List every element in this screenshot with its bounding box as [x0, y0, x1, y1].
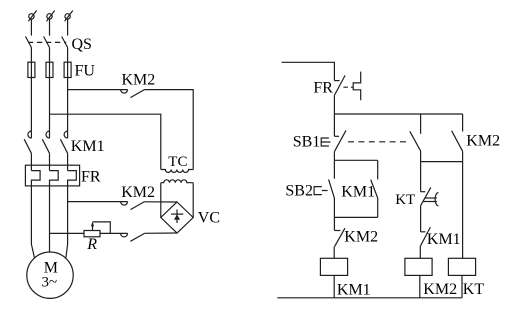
wire: phase 3 tap to KM2 contact (row A)	[68, 89, 128, 91]
wire: KM2 row D to rectifier bottom vertex	[145, 232, 178, 234]
coil KT	[448, 258, 475, 298]
supply terminal L1 (circle with slash)	[28, 11, 36, 22]
svg-text:TC: TC	[168, 154, 187, 170]
pushbutton SB1 blade	[334, 130, 346, 151]
wire: TC secondary left to rectifier left vertex	[160, 183, 162, 218]
wire: phase 2 FR to motor	[49, 186, 51, 252]
contact KT (NC time-delay)	[421, 162, 431, 206]
wire: phase 2 tap to TC primary left (row B)	[50, 114, 161, 169]
wire: TC secondary right to rectifier right vertex	[192, 183, 194, 218]
svg-text:KM1: KM1	[71, 138, 105, 155]
contactor KM1 main contact pole 3	[60, 131, 67, 153]
wire: parallel box bottom rail	[334, 216, 377, 218]
pushbutton SB2 actuator	[314, 187, 328, 195]
wire: phase 3 tap to KM2 braking contact (row C)	[68, 201, 128, 203]
wire: R bypass loop	[93, 222, 111, 234]
wire: phase 1 fuse to KM1 contact	[30, 78, 32, 139]
svg-text:VC: VC	[198, 209, 220, 226]
wire: R to KM2 contact (row D)	[100, 232, 128, 234]
FR heater element phase 3	[68, 171, 77, 186]
contact FR (NC thermal) fixed tick	[334, 80, 339, 82]
KT delay symbol	[423, 193, 438, 206]
FR thermal release symbol	[353, 72, 361, 101]
wire: bottom rail	[277, 297, 462, 299]
svg-text:3~: 3~	[42, 275, 58, 291]
contactor KM1 main contact pole 1	[24, 131, 31, 153]
mechanical link SB1 to KM2 contacts (dashed)	[348, 141, 408, 143]
transformer TC primary winding	[161, 170, 193, 173]
pushbutton SB2 (NO)	[329, 160, 335, 217]
QS mechanical link (dashed)	[28, 41, 66, 43]
svg-text:KT: KT	[463, 281, 485, 298]
wire: phase 3 FR to motor	[66, 186, 68, 258]
contact KM2 blade (row C)	[130, 202, 144, 210]
FR heater element phase 2	[50, 171, 59, 186]
wire: phase 2 tap to resistor R (row D)	[50, 232, 85, 234]
svg-text:QS: QS	[72, 36, 92, 53]
svg-text:KM1: KM1	[427, 231, 461, 248]
supply terminal L2	[47, 11, 55, 22]
contact KM2 aux 2 (NO)	[452, 114, 463, 258]
wire: phase 2 fuse to KM1 contact	[49, 78, 51, 139]
contact KM1 aux (NO, seal-in)	[371, 160, 378, 217]
wire: KM2 contact to TC primary right	[144, 90, 193, 170]
contact KM2 blade (row D)	[130, 233, 144, 241]
svg-text:SB2: SB2	[285, 183, 313, 200]
wire: SB1 to SB2 node	[333, 152, 335, 161]
contact KM2 aux 1 (NO)	[410, 114, 421, 162]
coil KM2	[405, 246, 432, 298]
rectifier VC diode symbol	[171, 210, 183, 224]
pushbutton SB1 actuator	[321, 138, 330, 146]
svg-text:KM2: KM2	[466, 132, 500, 149]
disconnect switch QS pole 3 blade	[62, 37, 68, 48]
wire: top rail to KM2 aux contacts	[334, 113, 462, 115]
svg-text:KM1: KM1	[341, 184, 375, 201]
pushbutton SB1 (NC) fixed tick	[334, 135, 339, 137]
FR heater element phase 1	[31, 171, 40, 186]
wire: phase 1 FR to motor	[31, 186, 34, 258]
fuse FU phase 2	[46, 62, 53, 77]
disconnect switch QS pole 2 blade	[44, 37, 50, 48]
contact KM2 fixed-end hook (row A)	[121, 90, 128, 94]
coil KM1	[320, 247, 347, 298]
contact KM2 blade (row A)	[130, 90, 144, 98]
wire: parallel box top rail	[334, 159, 377, 161]
supply terminal L3	[65, 11, 73, 22]
FR trip link (dashed)	[343, 86, 353, 88]
contact KM2 fixed-end hook (row D)	[121, 233, 128, 237]
fuse FU phase 1	[28, 62, 35, 77]
svg-text:R: R	[86, 236, 97, 253]
fuse FU phase 3	[64, 62, 71, 77]
wire: QS to fuses	[31, 48, 67, 63]
resistor R body	[84, 231, 100, 237]
contact KM1 (NC interlock right)	[421, 206, 431, 246]
svg-text:KM2: KM2	[423, 281, 457, 298]
contact KM2 fixed-end hook (row C)	[121, 202, 128, 206]
transformer TC secondary winding	[161, 180, 193, 183]
motor M circle	[27, 252, 73, 298]
svg-text:FR: FR	[81, 169, 101, 186]
contactor KM1 main contact pole 2	[42, 131, 49, 153]
svg-text:FU: FU	[75, 63, 96, 80]
svg-text:FR: FR	[313, 79, 333, 96]
wire: phase 3 fuse to KM1 contact	[67, 78, 69, 139]
svg-text:KM2: KM2	[344, 229, 378, 246]
wire: FR to SB1 with branch node	[333, 95, 335, 136]
wire: KM1 contacts down into FR	[31, 153, 67, 170]
svg-text:KM2: KM2	[121, 184, 155, 201]
svg-text:KT: KT	[395, 192, 415, 208]
contact FR blade	[335, 75, 346, 95]
wire: control feed	[282, 62, 335, 80]
thermal relay FR outer box	[25, 165, 79, 186]
wire: connector joining KM2 aux bottoms	[421, 161, 463, 163]
resistor R tap arrow	[91, 221, 94, 230]
contact KM2 (NC interlock)	[334, 217, 345, 246]
svg-text:KM2: KM2	[122, 72, 156, 89]
svg-text:SB1: SB1	[293, 133, 321, 150]
rectifier VC diamond	[161, 202, 193, 233]
svg-text:KM1: KM1	[337, 282, 371, 299]
wire: KM2 row C to rectifier top vertex	[145, 201, 178, 203]
wire: terminals to QS poles	[31, 19, 67, 35]
disconnect switch QS pole 1 blade	[26, 37, 32, 48]
